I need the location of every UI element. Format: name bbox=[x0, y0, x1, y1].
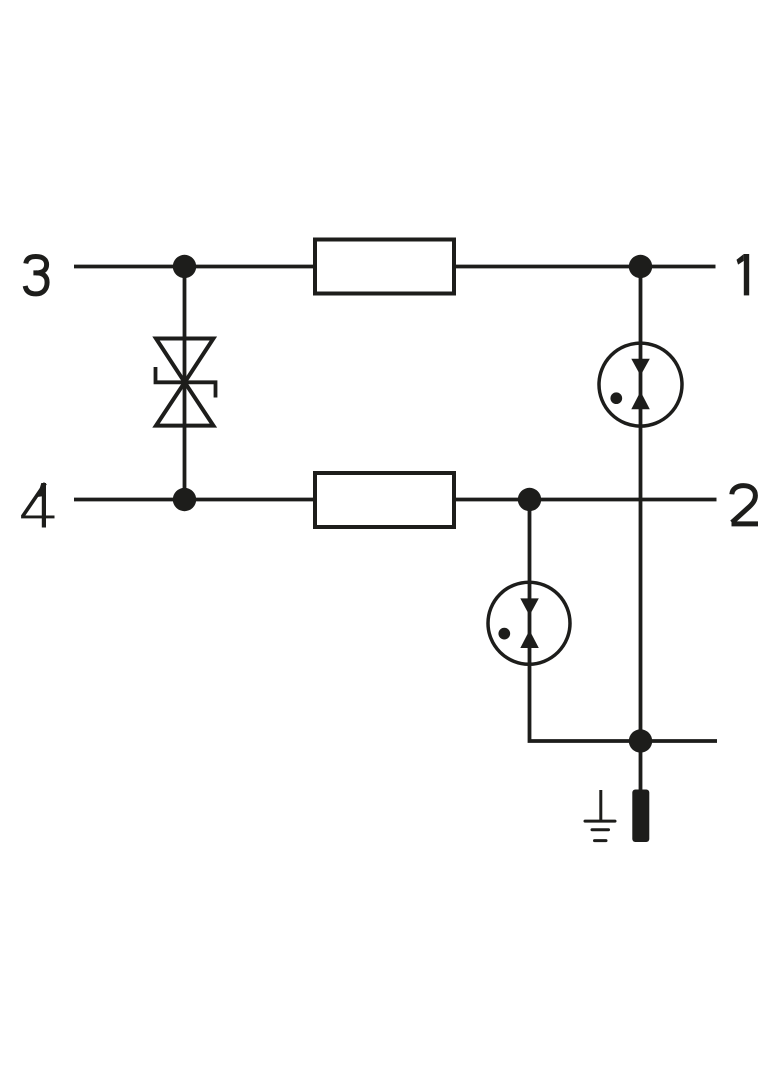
wire mid vertical and bottom horizontal to earth rail bbox=[530, 500, 718, 742]
earth electrode bar bbox=[632, 790, 649, 843]
terminal label 3 bbox=[25, 257, 47, 294]
junction node at terminal3 row bbox=[173, 255, 196, 278]
terminal label 1 bbox=[737, 254, 750, 295]
terminal label 4 bbox=[21, 483, 54, 528]
TVS suppressor diode bottom triangle bbox=[156, 382, 213, 425]
gas discharge arrester G1 bottom electrode triangle bbox=[631, 391, 650, 409]
wire terminal3 to R1 bbox=[74, 265, 315, 269]
gas discharge arrester G2 gas-filled dot bbox=[498, 628, 510, 640]
wire right vertical node1 to bottom node bbox=[639, 267, 643, 742]
TVS suppressor diode zener bar bbox=[156, 367, 216, 398]
gas discharge arrester G1 gas-filled dot bbox=[610, 392, 622, 404]
junction node on earth rail bbox=[629, 729, 652, 752]
gas discharge arrester G2 bottom electrode triangle bbox=[520, 630, 539, 648]
gas discharge arrester G2 circle bbox=[488, 582, 570, 664]
wire terminal4 to R2 bbox=[74, 498, 315, 502]
wire bottom node to electrode bbox=[639, 741, 643, 792]
terminal label 2 bbox=[732, 486, 759, 524]
TVS suppressor diode top triangle bbox=[156, 339, 213, 383]
junction node at terminal2 row bbox=[518, 488, 541, 511]
ground symbol short bar bbox=[595, 839, 607, 842]
resistor R2 bbox=[315, 473, 454, 527]
junction node at terminal4 row bbox=[173, 488, 196, 511]
ground symbol stem bbox=[599, 790, 602, 821]
wire R1 to terminal1 bbox=[454, 265, 716, 269]
gas discharge arrester G2 top electrode triangle bbox=[520, 598, 539, 615]
wire R2 to terminal2 bbox=[454, 498, 717, 502]
resistor R1 bbox=[315, 240, 454, 294]
ground symbol middle bar bbox=[592, 828, 609, 831]
wire left vertical node3 to node4 bbox=[183, 267, 187, 500]
junction node at terminal1 row bbox=[629, 255, 652, 278]
gas discharge arrester G1 circle bbox=[599, 343, 682, 426]
gas discharge arrester G1 top electrode triangle bbox=[631, 359, 650, 376]
ground symbol long bar bbox=[585, 820, 615, 823]
